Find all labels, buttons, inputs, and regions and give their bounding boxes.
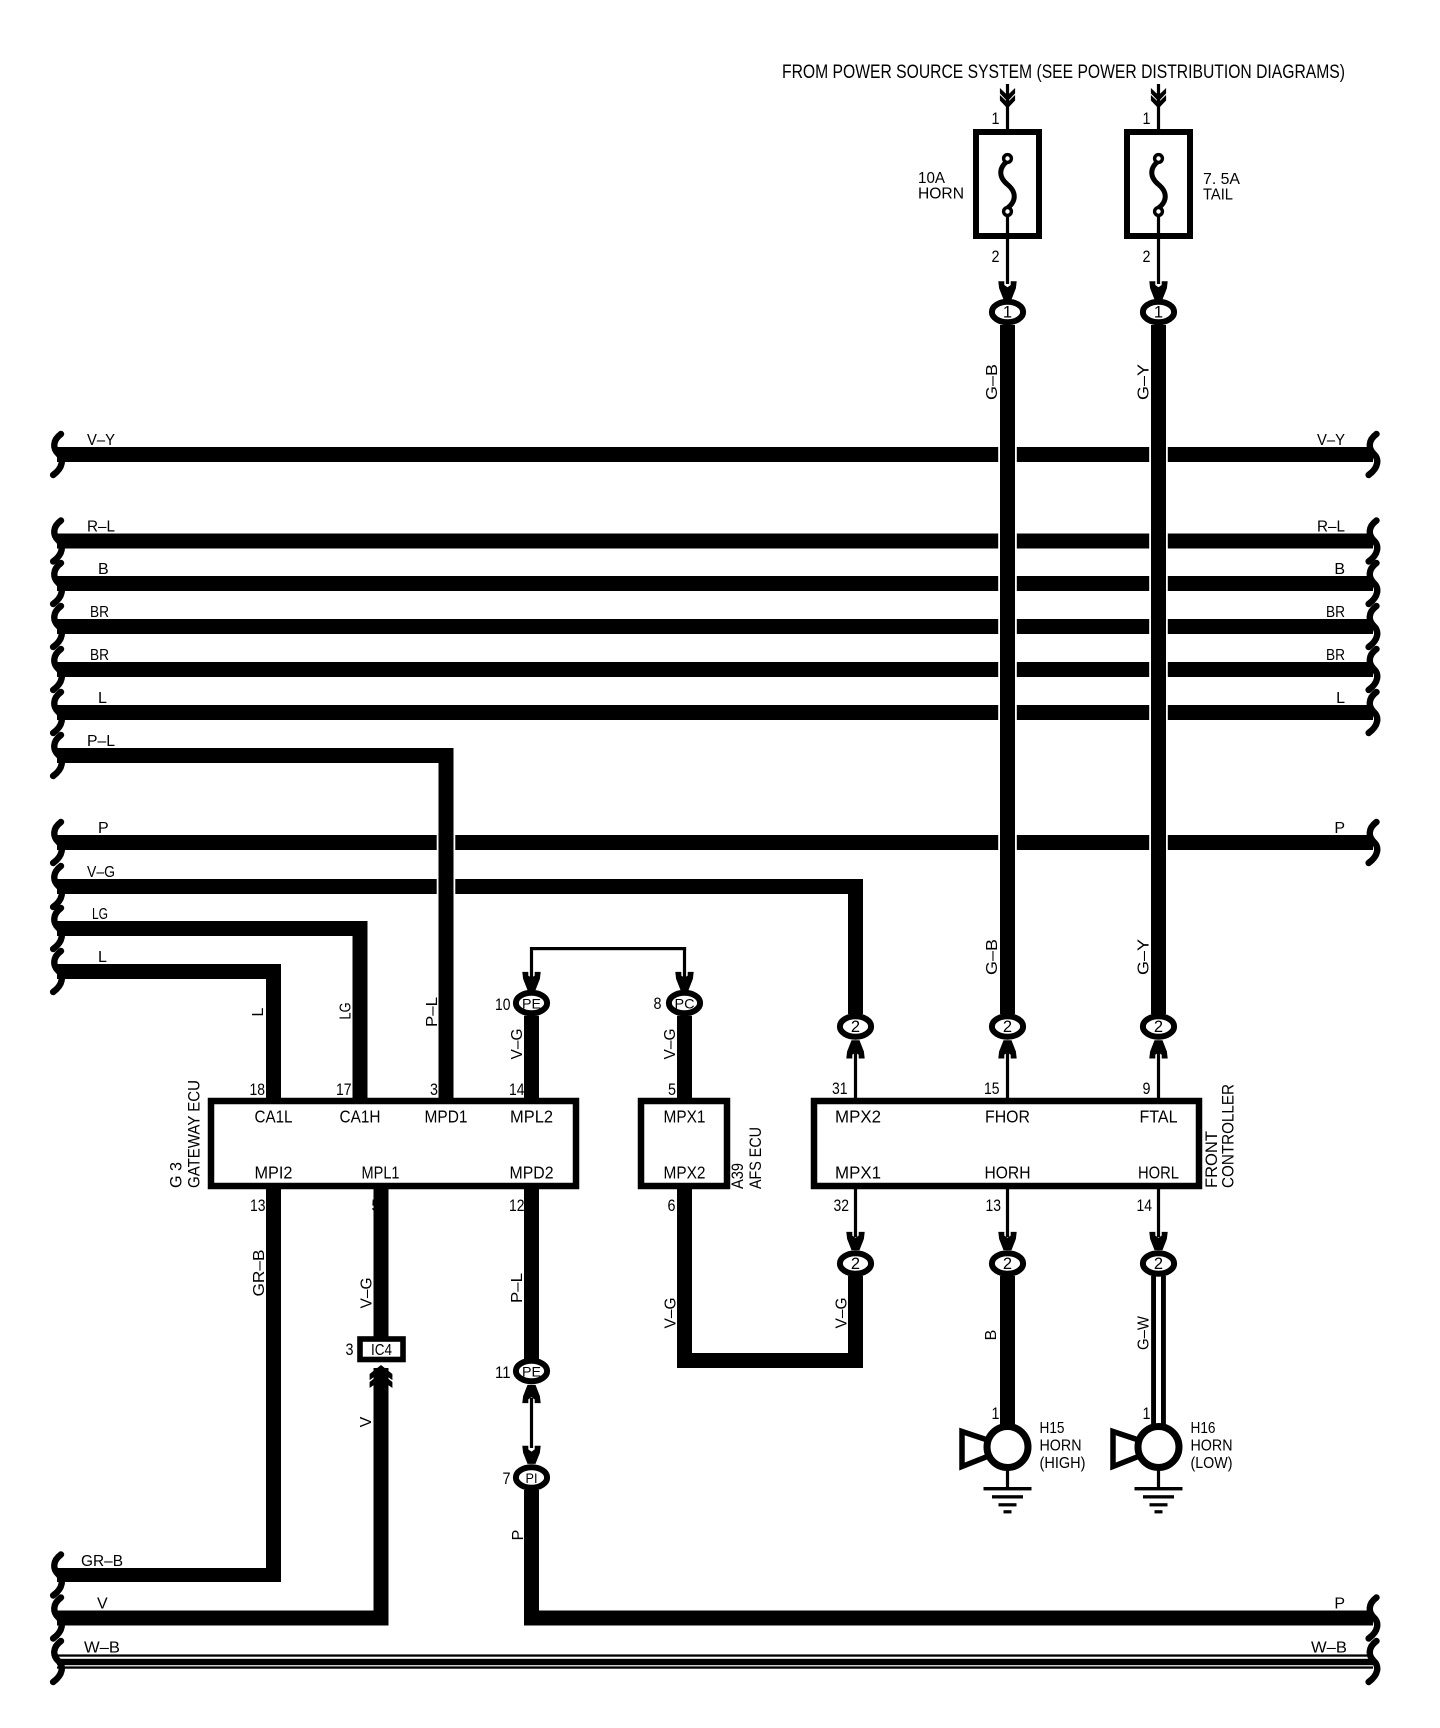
connector 1 below fuse 7.5A TAIL (1149, 281, 1167, 299)
wire: V-Y bus (57, 447, 1373, 462)
svg-text:L: L (250, 1007, 267, 1016)
svg-text:7. 5A: 7. 5A (1203, 171, 1240, 188)
svg-text:V–Y: V–Y (87, 432, 115, 449)
wire: V-G run from AFS MPX2 pin 6 down, right, up to connector 2 (677, 1189, 692, 1368)
svg-text:5: 5 (668, 1080, 676, 1099)
connector 2 above FTAL (1157, 1048, 1160, 1098)
svg-text:W–B: W–B (84, 1640, 120, 1657)
svg-text:V–G: V–G (834, 1298, 851, 1329)
svg-text:3: 3 (430, 1080, 438, 1099)
svg-text:H16: H16 (1191, 1420, 1216, 1437)
svg-text:IC4: IC4 (371, 1342, 392, 1359)
svg-text:H15: H15 (1040, 1420, 1065, 1437)
svg-text:LG: LG (92, 906, 108, 923)
svg-text:(HIGH): (HIGH) (1040, 1455, 1086, 1472)
wire: L bus (upper) (57, 705, 1373, 720)
svg-text:P: P (98, 820, 109, 837)
svg-text:18: 18 (250, 1080, 266, 1099)
svg-text:G 3: G 3 (167, 1162, 186, 1188)
wire: R-L bus (57, 534, 1373, 549)
svg-text:FHOR: FHOR (985, 1107, 1030, 1127)
svg-text:2: 2 (1154, 1255, 1163, 1273)
svg-text:P: P (1334, 1596, 1345, 1613)
svg-text:GR–B: GR–B (81, 1553, 123, 1570)
svg-text:1: 1 (1143, 1404, 1151, 1423)
svg-text:HORN: HORN (1191, 1438, 1233, 1455)
svg-text:R–L: R–L (1317, 519, 1345, 536)
wire: BR bus (lower) (57, 662, 1373, 677)
svg-text:2: 2 (1143, 247, 1151, 266)
wire: P-L bus, turns down to MPD1 (57, 748, 454, 763)
connector PC 8 (675, 972, 693, 990)
svg-text:HORN: HORN (1040, 1438, 1082, 1455)
wire: MPD2 P-L down to PE 11 (524, 1189, 539, 1359)
svg-text:A39: A39 (728, 1163, 747, 1189)
svg-text:P–L: P–L (509, 1273, 526, 1303)
svg-text:V–Y: V–Y (1317, 432, 1345, 449)
svg-text:2: 2 (1003, 1255, 1012, 1273)
connector PI 7 (516, 1467, 547, 1487)
svg-text:MPL2: MPL2 (510, 1107, 553, 1127)
svg-text:11: 11 (495, 1363, 511, 1382)
svg-text:P–L: P–L (87, 733, 115, 750)
svg-text:10: 10 (495, 995, 511, 1014)
wire: link from PE to PC (V-G) (530, 947, 686, 950)
svg-text:FROM POWER SOURCE SYSTEM (SEE: FROM POWER SOURCE SYSTEM (SEE POWER DIST… (782, 62, 1345, 83)
wire: BR bus (upper) (57, 619, 1373, 634)
wire: V from IC4 down and left (57, 1611, 389, 1626)
svg-text:CA1H: CA1H (340, 1107, 381, 1127)
svg-text:V–G: V–G (509, 1029, 526, 1060)
svg-text:L: L (98, 690, 107, 707)
svg-text:1: 1 (992, 109, 1000, 128)
svg-text:G–Y: G–Y (1136, 364, 1153, 400)
connector 2 below pin 13 (1006, 1189, 1009, 1237)
svg-text:BR: BR (1326, 647, 1345, 664)
wire: P bus (57, 835, 1373, 850)
Front Controller box (814, 1101, 1199, 1186)
wire: GR-B from MPI2 down and left (57, 1568, 281, 1582)
svg-text:CONTROLLER: CONTROLLER (1219, 1084, 1238, 1188)
svg-text:PC: PC (675, 996, 695, 1012)
svg-text:3: 3 (346, 1340, 354, 1359)
svg-text:V–G: V–G (359, 1278, 376, 1309)
svg-text:8: 8 (654, 994, 662, 1013)
wire: L bus (lower), turns down to CA1L (57, 964, 281, 979)
horn H15 (HIGH) (962, 1432, 994, 1467)
svg-text:14: 14 (509, 1080, 525, 1099)
svg-text:L: L (98, 949, 107, 966)
wire: B bus (57, 576, 1373, 591)
svg-text:7: 7 (503, 1469, 511, 1488)
svg-text:2: 2 (992, 247, 1000, 266)
connector 2 below pin 32 (854, 1189, 857, 1237)
svg-text:1: 1 (1143, 109, 1151, 128)
connector PE 11 (516, 1361, 547, 1381)
wire: V-G bus, turns down to connector 2 above MPX2 (57, 879, 863, 894)
svg-text:B: B (98, 561, 109, 578)
connector 2 above MPX2 (854, 1048, 857, 1098)
svg-text:BR: BR (90, 604, 109, 621)
svg-text:LG: LG (338, 1003, 355, 1020)
wire: PC to AFS MPX1 (677, 1016, 692, 1098)
svg-text:13: 13 (986, 1196, 1002, 1215)
svg-text:P–L: P–L (424, 997, 441, 1027)
svg-text:R–L: R–L (87, 519, 115, 536)
Gateway ECU box G3 (211, 1101, 576, 1186)
svg-text:32: 32 (834, 1196, 850, 1215)
svg-text:V–G: V–G (662, 1029, 679, 1060)
connector PE 10 (522, 972, 540, 990)
wire: W-B shielded bus at bottom (57, 1654, 1373, 1656)
wire: P-L vertical down to MPD1 (439, 748, 454, 1098)
svg-text:FTAL: FTAL (1140, 1107, 1178, 1127)
svg-text:V: V (358, 1416, 375, 1427)
svg-text:G–B: G–B (984, 364, 1001, 400)
svg-text:2: 2 (851, 1255, 860, 1273)
svg-text:13: 13 (250, 1196, 266, 1215)
horn H16 (LOW) (1113, 1432, 1145, 1467)
ground below H15 (1006, 1468, 1009, 1487)
svg-text:B: B (983, 1330, 1000, 1341)
svg-text:TAIL: TAIL (1203, 187, 1233, 204)
wire: G-Y vertical from fuse 7.5A TAIL to FTAL (1151, 325, 1166, 1014)
svg-text:6: 6 (668, 1196, 676, 1215)
wire: G-B vertical (1000, 325, 1015, 1014)
junction IC4 (360, 1339, 403, 1360)
svg-text:1: 1 (1003, 304, 1012, 322)
wire: P bottom run from PI to right edge (524, 1611, 1373, 1626)
svg-text:MPX2: MPX2 (835, 1107, 881, 1127)
svg-text:1: 1 (992, 1404, 1000, 1423)
svg-text:PE: PE (522, 996, 541, 1012)
wire: MPL1 V-G down to IC4 (374, 1189, 389, 1338)
svg-text:MPX1: MPX1 (835, 1163, 881, 1183)
svg-text:PE: PE (522, 1364, 541, 1380)
svg-text:G–W: G–W (1136, 1315, 1153, 1350)
svg-text:G–Y: G–Y (1136, 939, 1153, 975)
wire: PE to MPL2 (524, 1016, 539, 1098)
connector 1 below fuse 10A HORN (998, 281, 1016, 299)
svg-text:MPX1: MPX1 (664, 1107, 706, 1127)
svg-text:L: L (1336, 690, 1345, 707)
svg-text:2: 2 (1003, 1018, 1012, 1036)
svg-text:P: P (510, 1530, 527, 1541)
svg-text:B: B (1334, 561, 1345, 578)
wire: LG bus, turns down to CA1H (57, 921, 368, 936)
svg-text:HORH: HORH (985, 1163, 1031, 1183)
svg-text:V: V (97, 1596, 108, 1613)
svg-text:MPI2: MPI2 (255, 1163, 293, 1183)
fuse 7.5A TAIL: body (1127, 132, 1190, 236)
svg-text:15: 15 (984, 1079, 1000, 1098)
fuse 7.5A TAIL: feed arrow from power source (1157, 84, 1160, 129)
svg-text:MPD2: MPD2 (510, 1163, 554, 1183)
connector 2 above FHOR (1006, 1048, 1009, 1098)
svg-text:GATEWAY ECU: GATEWAY ECU (185, 1080, 204, 1188)
svg-text:BR: BR (90, 647, 109, 664)
AFS ECU box A39 (641, 1101, 727, 1186)
svg-text:17: 17 (336, 1080, 352, 1099)
svg-text:1: 1 (1154, 304, 1163, 322)
svg-text:14: 14 (1137, 1196, 1153, 1215)
wire: G-W from HORL connector to H16 (paired line) (1151, 1276, 1156, 1425)
svg-text:PI: PI (526, 1470, 538, 1486)
svg-text:V–G: V–G (87, 864, 115, 881)
wire: PE 11 to PI 7 (530, 1398, 533, 1448)
svg-text:9: 9 (1143, 1079, 1151, 1098)
wire: G-B vertical from fuse 10A HORN to FHOR (998, 447, 1017, 463)
connector 2 below pin 14 (1157, 1189, 1160, 1237)
svg-text:(LOW): (LOW) (1191, 1455, 1233, 1472)
svg-text:BR: BR (1326, 604, 1345, 621)
svg-text:CA1L: CA1L (255, 1107, 293, 1127)
svg-text:V–G: V–G (663, 1298, 680, 1329)
wire: B from HORH connector to H15 (1000, 1276, 1015, 1425)
svg-text:HORL: HORL (1138, 1163, 1179, 1183)
svg-text:12: 12 (509, 1196, 525, 1215)
fuse 10A HORN: feed arrow from power source (1006, 84, 1009, 129)
svg-text:HORN: HORN (918, 186, 964, 203)
fuse 10A HORN: body (976, 132, 1039, 236)
svg-text:GR–B: GR–B (251, 1250, 268, 1297)
svg-text:P: P (1334, 820, 1345, 837)
svg-text:10A: 10A (918, 170, 945, 187)
svg-text:MPD1: MPD1 (425, 1107, 468, 1127)
svg-text:31: 31 (832, 1079, 848, 1098)
svg-text:2: 2 (851, 1018, 860, 1036)
svg-text:MPL1: MPL1 (362, 1163, 400, 1183)
svg-text:G–B: G–B (984, 939, 1001, 975)
ground below H16 (1157, 1468, 1160, 1487)
svg-text:MPX2: MPX2 (664, 1163, 706, 1183)
svg-text:W–B: W–B (1311, 1640, 1347, 1657)
svg-text:AFS ECU: AFS ECU (746, 1127, 765, 1189)
svg-text:2: 2 (1154, 1018, 1163, 1036)
